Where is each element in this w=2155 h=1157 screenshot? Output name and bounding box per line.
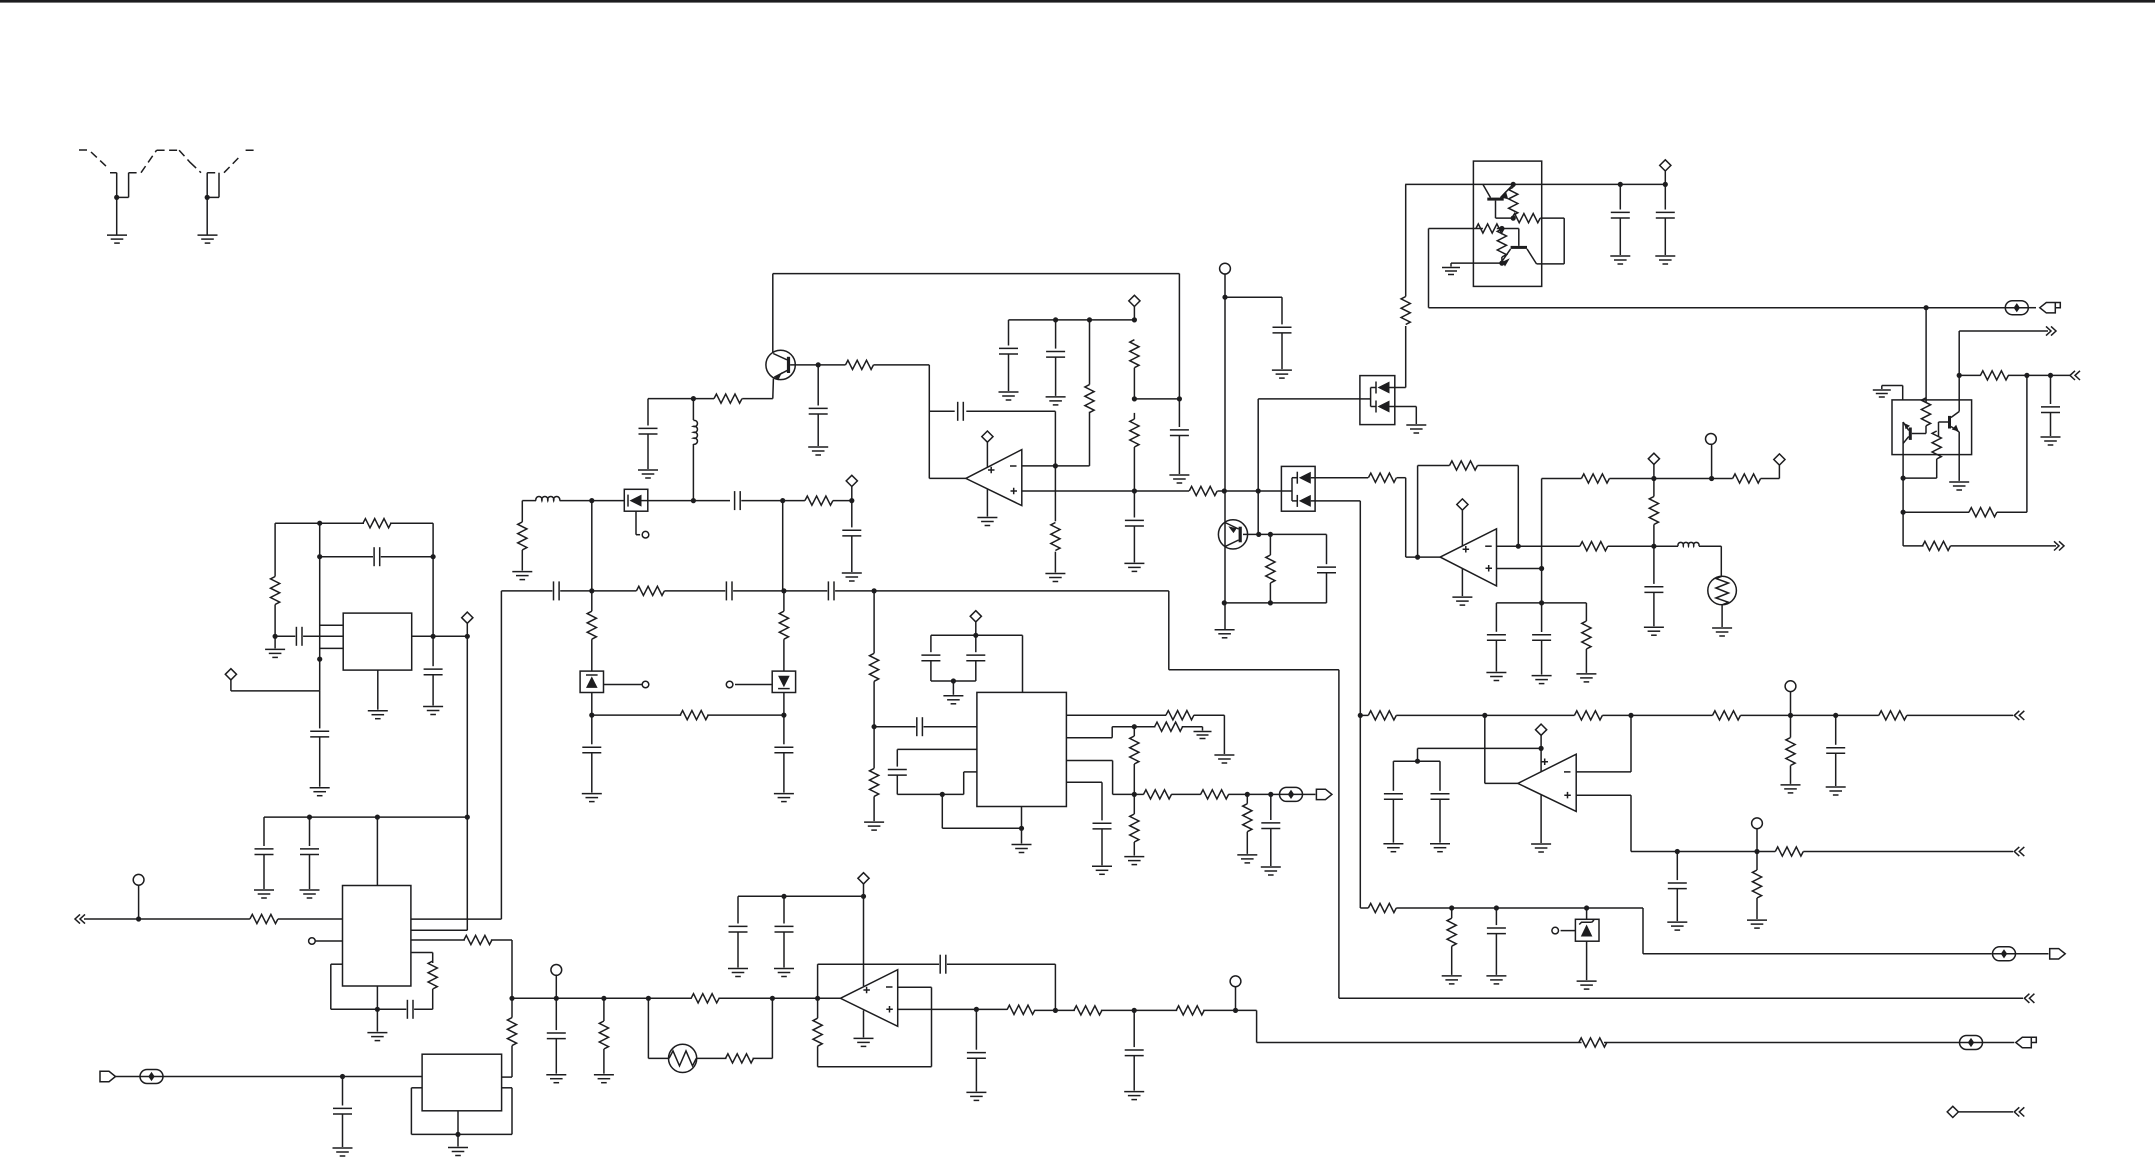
ground U2 <box>1452 597 1472 605</box>
junction <box>509 996 514 1001</box>
resistor R22 <box>1582 621 1591 649</box>
wire <box>975 1058 977 1091</box>
junction <box>1494 905 1499 910</box>
wire supply rail <box>1405 183 1665 185</box>
resistor R17 <box>1980 371 2008 380</box>
wire <box>693 500 730 502</box>
wire <box>1101 829 1103 865</box>
junction <box>136 916 141 921</box>
wire <box>263 855 265 890</box>
wire <box>320 624 344 626</box>
test point TP4 <box>140 1070 163 1084</box>
ground U3 <box>854 1038 874 1046</box>
capacitor C8 <box>1273 327 1292 333</box>
wire <box>1259 533 1327 535</box>
wire <box>555 975 557 998</box>
connector pin P2 <box>1706 434 1717 445</box>
power flag V5 <box>1774 454 1785 465</box>
wire <box>1518 229 1520 246</box>
IC U5 <box>977 692 1067 806</box>
junction <box>1651 476 1656 481</box>
wire <box>432 675 434 706</box>
wire <box>771 998 773 1058</box>
wire <box>411 1133 512 1135</box>
wire <box>738 895 864 897</box>
ground <box>774 969 794 977</box>
wire <box>1066 781 1102 783</box>
wire <box>897 748 977 750</box>
wire <box>466 636 468 817</box>
wire <box>1790 692 1792 716</box>
wire <box>1133 368 1135 399</box>
resistor R28 <box>1713 711 1741 720</box>
wire <box>1902 386 1904 400</box>
power flag V1 <box>982 431 993 442</box>
diode D4 <box>624 489 648 511</box>
resistor R47 <box>1130 736 1139 764</box>
junction <box>861 894 866 899</box>
wire <box>1133 1056 1135 1091</box>
wire <box>1112 761 1114 795</box>
wire Q2 base <box>1495 201 1497 219</box>
wire <box>1495 908 1497 925</box>
op-amp U3 <box>840 970 897 1027</box>
ground <box>1124 857 1144 865</box>
connector pin P5 <box>1552 927 1559 934</box>
ground <box>864 822 884 830</box>
wire <box>1778 465 1780 478</box>
junction <box>307 815 312 820</box>
junction <box>1901 510 1906 515</box>
junction <box>1177 396 1182 401</box>
ground <box>254 890 274 898</box>
wire <box>560 590 636 592</box>
wire <box>930 661 932 681</box>
wire <box>947 963 1056 965</box>
off-page arrow <box>2054 541 2064 550</box>
wire <box>1178 399 1180 427</box>
wire <box>1257 399 1259 535</box>
resistor R23 <box>1581 474 1609 483</box>
wire U4 output <box>1484 715 1486 783</box>
wire <box>1415 407 1417 425</box>
wire <box>521 550 523 571</box>
wire <box>975 661 977 681</box>
wire <box>511 1088 513 1135</box>
wire <box>733 590 827 592</box>
wire <box>924 726 977 728</box>
wire <box>647 998 649 1058</box>
capacitor C26 <box>300 849 319 855</box>
ground <box>1667 922 1687 930</box>
capacitor C27 <box>735 491 741 510</box>
wire Q5 base link <box>1912 433 1926 435</box>
wire <box>1602 714 1712 716</box>
wire <box>1907 714 2013 716</box>
ground <box>1046 397 1066 405</box>
junction <box>2048 373 2053 378</box>
wire U1 output <box>929 477 966 479</box>
junction <box>1901 476 1906 481</box>
wire <box>2008 374 2070 376</box>
resistor R8 <box>1401 297 1410 325</box>
transistor Q3 <box>1511 246 1527 249</box>
wire U2 supply <box>1461 510 1463 546</box>
off-page arrow <box>2024 994 2034 1003</box>
wire <box>591 715 593 744</box>
ground <box>1576 674 1596 682</box>
dual diode D2 <box>1281 466 1315 511</box>
connector lug <box>1316 789 1332 799</box>
junction <box>940 792 945 797</box>
junction <box>2024 373 2029 378</box>
capacitor C13 <box>1487 635 1506 641</box>
ground <box>582 794 602 802</box>
wire <box>735 684 772 686</box>
wire <box>466 623 468 636</box>
ground Q4 emitter <box>1215 630 1235 638</box>
wire <box>1537 263 1565 265</box>
wire U1 supply <box>986 442 988 467</box>
capacitor C5 <box>1046 352 1065 358</box>
wire <box>931 680 976 682</box>
wire <box>1055 357 1057 396</box>
wire U1 inverting input <box>1022 465 1056 467</box>
wire <box>647 434 649 469</box>
junction <box>1651 544 1656 549</box>
ground <box>1577 981 1597 989</box>
junction <box>1268 532 1273 537</box>
ground <box>638 470 658 478</box>
wire <box>1619 184 1621 209</box>
test point TP1 <box>2005 301 2028 315</box>
inductor L2 <box>1654 545 1678 547</box>
junction <box>1415 555 1420 560</box>
resistor R63 <box>1579 1038 1607 1047</box>
wire <box>817 365 819 406</box>
ground <box>999 392 1019 400</box>
resistor R45 <box>1166 711 1194 720</box>
transistor Q4 <box>1218 520 1247 549</box>
wire <box>930 635 932 652</box>
wire <box>833 500 852 502</box>
ground <box>1949 482 1969 490</box>
wire <box>975 1009 977 1049</box>
connector lug <box>2016 1037 2037 1047</box>
resistor R51 <box>1243 804 1252 832</box>
junction <box>1222 295 1227 300</box>
junction shield left <box>114 195 119 200</box>
dual diode D1 <box>1360 376 1395 425</box>
capacitor C17 <box>1384 794 1403 800</box>
wire <box>1721 605 1723 627</box>
resistor R43 <box>870 653 879 681</box>
power flag V9 <box>462 612 473 623</box>
wire <box>1113 793 1135 795</box>
resistor R15 <box>1921 398 1930 426</box>
junction <box>1245 792 1250 797</box>
capacitor C22 <box>296 627 302 646</box>
junction <box>1511 216 1516 221</box>
resistor R24 <box>1733 474 1761 483</box>
resistor R29 <box>1879 711 1907 720</box>
capacitor C2 <box>809 408 828 414</box>
wire <box>1396 907 1643 909</box>
resistor R11 <box>1509 187 1518 215</box>
wire <box>381 556 433 558</box>
junction <box>1539 746 1544 751</box>
connector pin P10 <box>309 938 316 945</box>
off-page arrow <box>2014 711 2024 720</box>
wire <box>331 1008 378 1010</box>
wire U4 inverting input <box>1576 771 1631 773</box>
wire <box>1541 640 1543 674</box>
wire <box>342 1077 344 1106</box>
ground <box>1261 867 1281 875</box>
wire D2 common <box>1291 478 1293 501</box>
transistor Q6 <box>1948 416 1951 429</box>
ground <box>842 573 862 581</box>
wire output bus <box>1429 307 2006 309</box>
capacitor C28 <box>842 530 861 536</box>
junction <box>1132 792 1137 797</box>
wire <box>1951 545 2057 547</box>
junction <box>465 634 470 639</box>
wire <box>1540 217 1564 219</box>
junction <box>589 588 594 593</box>
junction <box>974 1007 979 1012</box>
wire <box>319 691 321 729</box>
wire <box>1903 511 1969 513</box>
junction <box>1087 317 1092 322</box>
wire <box>432 989 434 1009</box>
wire <box>817 964 819 998</box>
wire <box>1101 1009 1177 1011</box>
junction <box>1511 182 1516 187</box>
wire <box>491 939 512 941</box>
junction shield right <box>205 195 210 200</box>
resistor R35 <box>363 519 391 528</box>
resistor R62 <box>1176 1006 1204 1015</box>
wire <box>896 775 898 794</box>
wire Q4 base <box>1243 533 1259 535</box>
wire <box>1541 479 1543 633</box>
wire <box>411 939 465 941</box>
junction <box>1788 713 1793 718</box>
capacitor C29 <box>554 581 560 600</box>
junction <box>1233 1008 1238 1013</box>
wire <box>1958 1111 2013 1113</box>
wire <box>1997 511 2027 513</box>
wire IF bus <box>501 590 552 592</box>
wire <box>1089 320 1091 385</box>
ground <box>1169 475 1189 483</box>
wire <box>818 1066 932 1068</box>
wire <box>591 693 593 716</box>
wire <box>929 410 954 412</box>
resistor R56 <box>691 994 719 1003</box>
wire <box>330 964 332 1009</box>
IC U7 <box>422 1054 502 1111</box>
resistor R6 <box>1130 340 1139 368</box>
wire <box>1642 908 1644 954</box>
resistor R5 <box>1085 385 1094 413</box>
junction <box>1675 849 1680 854</box>
wire Q1 collector <box>772 274 774 352</box>
junction <box>431 634 436 639</box>
wire <box>1270 829 1272 867</box>
wire <box>1235 987 1237 1011</box>
wire <box>1585 603 1587 621</box>
wire <box>1959 374 1981 376</box>
wire <box>1326 573 1328 603</box>
power flag V3 <box>1660 160 1671 171</box>
wire <box>647 399 649 426</box>
wire <box>303 635 343 637</box>
wire <box>1835 715 1837 744</box>
capacitor C45 <box>940 955 946 974</box>
wire <box>648 500 694 502</box>
resistor R13 <box>1476 224 1504 233</box>
resistor R37 <box>518 522 527 550</box>
capacitor C14 <box>1532 635 1551 641</box>
resistor R27 <box>1574 711 1602 720</box>
wire <box>411 929 467 931</box>
wire <box>1925 308 1927 402</box>
connector pin P7 <box>642 681 649 688</box>
junction <box>1628 713 1633 718</box>
junction <box>1754 849 1759 854</box>
wire <box>1112 726 1134 728</box>
resistor R49 <box>1201 790 1229 799</box>
wire <box>1008 354 1010 391</box>
wire <box>555 998 557 1030</box>
junction <box>872 588 877 593</box>
junction <box>1256 488 1261 493</box>
wire <box>1035 1009 1075 1011</box>
wire <box>309 855 311 890</box>
junction <box>1415 759 1420 764</box>
wire U3 output <box>818 997 841 999</box>
ground <box>1194 732 1212 739</box>
connector pin P1 <box>1220 263 1231 274</box>
wire <box>719 997 818 999</box>
wire <box>897 793 942 795</box>
capacitor C32 <box>582 747 601 753</box>
wire <box>1903 477 1937 479</box>
ground <box>512 572 532 580</box>
wire <box>817 414 819 446</box>
wire <box>741 500 782 502</box>
capacitor C33 <box>774 747 793 753</box>
wire <box>1203 1009 1256 1011</box>
power flag V11 <box>970 611 981 622</box>
wire <box>1393 760 1440 762</box>
wire <box>818 364 845 366</box>
junction <box>691 396 696 401</box>
wire U3 non-inverting input <box>898 1008 977 1010</box>
shield gate left <box>116 173 118 198</box>
resistor R39 <box>636 586 664 595</box>
wire <box>1066 737 1112 739</box>
junction <box>1358 713 1363 718</box>
capacitor C23 <box>310 731 329 737</box>
op-amp U1 <box>966 450 1022 506</box>
wire <box>783 693 785 716</box>
wire <box>1790 715 1792 737</box>
ground <box>728 969 748 977</box>
wire <box>1133 307 1135 320</box>
junction <box>1499 226 1504 231</box>
off-page arrow <box>2070 371 2080 380</box>
capacitor C15 <box>1644 587 1663 593</box>
wire <box>1311 500 1361 502</box>
wire <box>263 817 265 846</box>
wire <box>1168 591 1170 670</box>
wire <box>1495 934 1497 975</box>
wire <box>1228 793 1269 795</box>
junction <box>780 498 785 503</box>
wire <box>851 536 853 572</box>
wire <box>1134 726 1155 728</box>
junction <box>589 713 594 718</box>
junction <box>375 815 380 820</box>
diode D6 <box>772 671 795 692</box>
junction <box>1132 396 1137 401</box>
resistor R55 <box>507 1018 516 1046</box>
resistor R30 <box>1786 738 1795 766</box>
resistor R34 <box>1447 918 1456 946</box>
junction <box>375 1007 380 1012</box>
junction <box>273 634 278 639</box>
capacitor C46 <box>967 1053 986 1059</box>
ground U4 <box>1531 844 1551 852</box>
antenna shield dashed outline <box>79 150 141 173</box>
wire <box>964 771 977 773</box>
wire <box>1405 478 1407 557</box>
wire <box>1803 851 2013 853</box>
wire feedback <box>1417 466 1419 558</box>
wire <box>1133 491 1135 518</box>
wire <box>692 444 694 501</box>
wire <box>1903 545 1923 547</box>
capacitor C43 <box>729 926 748 932</box>
wire <box>1182 726 1203 728</box>
wire <box>376 817 378 885</box>
wire <box>1439 761 1441 791</box>
wire <box>1439 799 1441 842</box>
wire <box>432 523 434 636</box>
wire <box>1224 274 1226 629</box>
wire <box>931 634 1023 636</box>
wire <box>873 591 875 653</box>
wire audio bus <box>512 997 692 999</box>
junction <box>781 588 786 593</box>
junction <box>815 996 820 1001</box>
wire <box>1608 545 1654 547</box>
wire U3 supply <box>863 896 865 986</box>
wire <box>1586 941 1588 980</box>
ground <box>1272 370 1292 378</box>
ground <box>1781 785 1801 793</box>
wire <box>1676 852 1678 881</box>
capacitor C31 <box>828 581 834 600</box>
junction <box>601 996 606 1001</box>
capacitor C38 <box>1261 823 1280 829</box>
wire <box>1217 490 1258 492</box>
wire <box>521 501 523 522</box>
junction <box>973 633 978 638</box>
